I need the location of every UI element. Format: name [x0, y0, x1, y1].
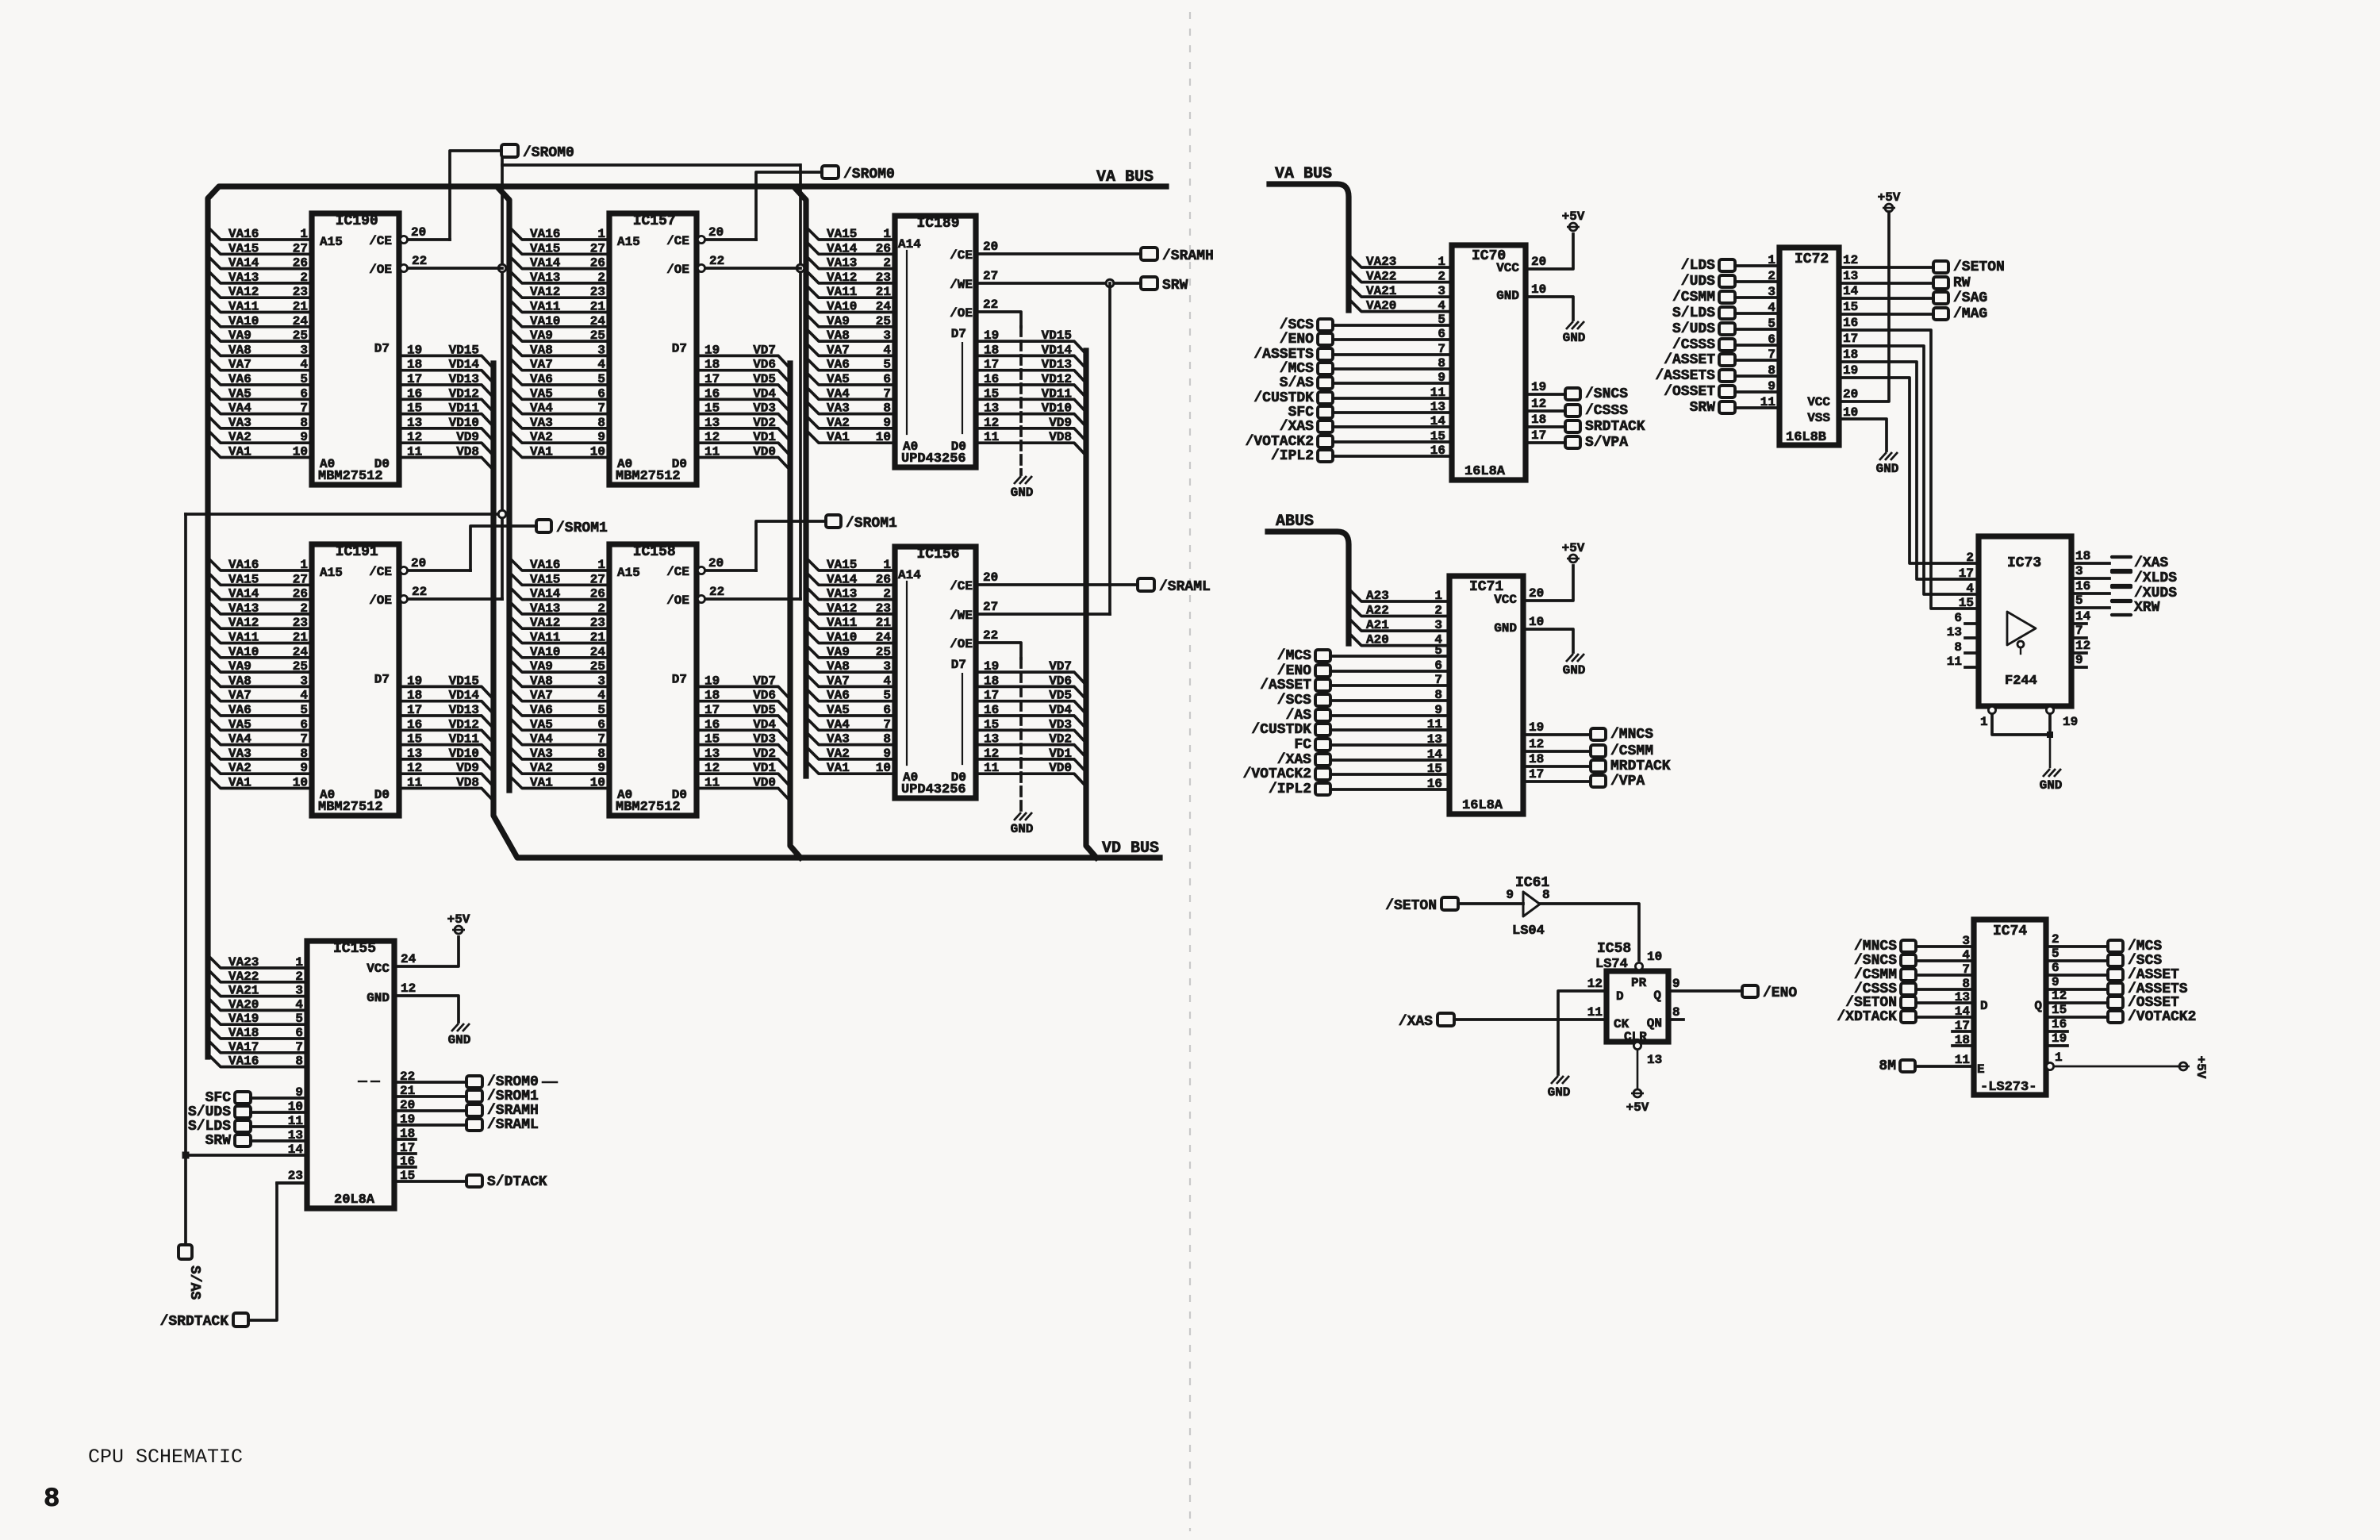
- ground IC156 /OE: [1014, 812, 1021, 820]
- wire IC157 pin 19 to VD7: [697, 355, 790, 368]
- svg-text:13: 13: [1427, 732, 1442, 747]
- connector /ASSET: [1719, 354, 1735, 366]
- pin 13 bubble IC58 CLR: [1633, 1042, 1641, 1049]
- svg-text:VA2: VA2: [228, 761, 251, 775]
- svg-text:VA6: VA6: [530, 703, 553, 717]
- wire IC189 pin 17 to VD13: [976, 371, 1086, 383]
- wire SFC to IC70 pin 13: [1333, 411, 1452, 414]
- svg-text:10: 10: [876, 761, 891, 775]
- svg-text:5: 5: [1434, 643, 1442, 658]
- svg-text:10: 10: [1529, 615, 1544, 629]
- svg-text:A15: A15: [617, 566, 640, 580]
- wire VA3 to IC189 pin 8: [806, 401, 895, 414]
- wire VA8 to IC189 pin 3: [806, 328, 895, 341]
- svg-text:6: 6: [300, 386, 308, 401]
- wire IC190 pin 19 to VD15: [399, 355, 493, 368]
- svg-text:8: 8: [300, 747, 308, 761]
- svg-text:9: 9: [2075, 653, 2083, 667]
- svg-text:2: 2: [295, 970, 303, 984]
- wire /SCS to IC71 pin 8: [1330, 699, 1449, 702]
- wire IC74 pin 5 to /SCS: [2046, 959, 2108, 962]
- svg-text:24: 24: [590, 645, 606, 659]
- wire VA9 to IC190 pin 25: [208, 328, 312, 341]
- svg-text:S/LDS: S/LDS: [188, 1119, 231, 1135]
- ground IC70 pin 10: [1566, 321, 1573, 329]
- wire VA11 to IC190 pin 21: [208, 300, 312, 313]
- svg-text:21: 21: [293, 300, 308, 314]
- connector /OSSET: [1719, 386, 1735, 397]
- svg-text:14: 14: [1427, 747, 1443, 762]
- svg-text:26: 26: [293, 256, 308, 271]
- svg-text:22: 22: [709, 585, 724, 599]
- wire IC189 pin 19 to VD15: [976, 341, 1086, 354]
- stub IC73 pin 8: [1965, 651, 1979, 655]
- wire /IPL2 to IC71 pin 16: [1330, 788, 1449, 791]
- svg-text:12: 12: [704, 761, 720, 775]
- svg-text:VA5: VA5: [827, 372, 850, 386]
- svg-text:7: 7: [597, 401, 605, 416]
- connector /MNCS: [1591, 728, 1606, 740]
- svg-text:VA5: VA5: [827, 703, 850, 717]
- wire IC72 pin 16 to IC73: [1839, 330, 1979, 609]
- svg-text:VA10: VA10: [228, 314, 259, 328]
- svg-text:13: 13: [1947, 625, 1962, 639]
- svg-text:10: 10: [293, 445, 308, 459]
- svg-text:20: 20: [708, 225, 724, 240]
- wire IC156 pin 19 to VD7: [976, 672, 1086, 685]
- svg-text:GND: GND: [1011, 486, 1034, 500]
- svg-text:SRW: SRW: [1162, 278, 1188, 294]
- wire /SETON to IC61: [1458, 902, 1523, 905]
- svg-text:CPU SCHEMATIC: CPU SCHEMATIC: [88, 1446, 243, 1469]
- svg-text:8: 8: [597, 416, 605, 430]
- svg-text:17: 17: [1843, 332, 1858, 346]
- svg-text:VD2: VD2: [753, 747, 776, 761]
- IC IC189 (UPD43256): [895, 216, 976, 467]
- svg-text:10: 10: [293, 776, 308, 790]
- svg-text:/MAG: /MAG: [1953, 306, 1987, 322]
- wire VA12 to IC191 pin 23: [208, 616, 312, 628]
- svg-text:4: 4: [1966, 582, 1974, 596]
- svg-text:GND: GND: [1563, 331, 1586, 345]
- svg-text:VA14: VA14: [530, 256, 561, 271]
- connector /SRAML: [466, 1119, 482, 1131]
- svg-text:1: 1: [883, 558, 891, 572]
- connector /CSMM: [1901, 969, 1916, 981]
- svg-text:5: 5: [1438, 313, 1445, 327]
- svg-text:D0: D0: [374, 457, 390, 471]
- svg-text:VA8: VA8: [530, 343, 553, 357]
- wire A20 to IC71 pin 4: [1349, 633, 1449, 646]
- svg-text:GND: GND: [367, 991, 390, 1005]
- svg-text:+5V: +5V: [1878, 190, 1901, 205]
- svg-text:/SROM1: /SROM1: [846, 516, 897, 532]
- connector /CSSS: [1901, 983, 1916, 995]
- svg-text:20: 20: [983, 240, 998, 254]
- svg-text:14: 14: [2075, 609, 2091, 624]
- svg-text:VA14: VA14: [530, 587, 561, 601]
- svg-text:22: 22: [412, 254, 427, 268]
- wire IC190 pin 16 to VD12: [399, 399, 493, 412]
- wire /SROM1 to IC158 pin 20: [756, 521, 826, 570]
- ground IC73 enable: [2043, 769, 2050, 777]
- svg-text:/OSSET: /OSSET: [1664, 384, 1715, 400]
- svg-text:VA2: VA2: [530, 430, 553, 444]
- wire /CSSS to IC72 pin 6: [1735, 344, 1779, 347]
- svg-text:18: 18: [1531, 413, 1546, 427]
- wire VA4 to IC158 pin 7: [509, 732, 609, 745]
- wire VA8 to IC156 pin 3: [806, 659, 895, 672]
- svg-text:8: 8: [1542, 888, 1550, 902]
- svg-text:VD13: VD13: [1042, 358, 1072, 372]
- svg-text:25: 25: [590, 328, 605, 343]
- svg-text:IC58: IC58: [1597, 941, 1631, 957]
- wire IC158 pin 13 to VD2: [697, 759, 790, 772]
- wire VA6 to IC158 pin 5: [509, 703, 609, 716]
- svg-text:VA8: VA8: [827, 659, 850, 674]
- svg-text:12: 12: [984, 747, 999, 761]
- svg-text:27: 27: [983, 269, 998, 283]
- svg-text:VA8: VA8: [827, 328, 850, 343]
- svg-text:A0: A0: [903, 770, 918, 785]
- svg-text:9: 9: [2052, 975, 2059, 989]
- svg-text:5: 5: [883, 358, 891, 372]
- svg-text:24: 24: [590, 314, 606, 328]
- inverter IC61: [1523, 892, 1540, 916]
- wire /ASSETS to IC72 pin 8: [1735, 374, 1779, 378]
- svg-text:16: 16: [704, 386, 720, 401]
- svg-text:VA7: VA7: [827, 343, 850, 357]
- wire VA6 to IC189 pin 5: [806, 358, 895, 371]
- IC IC191 (MBM27512): [312, 544, 399, 816]
- wire VA5 to IC191 pin 6: [208, 717, 312, 730]
- svg-text:19: 19: [1843, 363, 1858, 378]
- svg-text:/ASSETS: /ASSETS: [1655, 368, 1715, 384]
- svg-text:27: 27: [983, 600, 998, 614]
- connector /VOTACK2: [1315, 768, 1330, 780]
- svg-text:15: 15: [1430, 429, 1445, 444]
- wire IC74 pin 1 to +5V: [2054, 1066, 2177, 1068]
- connector /SETON (IC61 input): [1441, 897, 1458, 910]
- svg-text:VA2: VA2: [827, 747, 850, 761]
- svg-text:A22: A22: [1366, 604, 1389, 618]
- svg-text:VA3: VA3: [530, 416, 553, 430]
- svg-text:VD9: VD9: [1049, 416, 1072, 430]
- wire VA1 to IC157 pin 10: [509, 445, 609, 458]
- connector /ENO: [1742, 985, 1758, 997]
- svg-text:18: 18: [1955, 1033, 1970, 1047]
- svg-text:7: 7: [883, 386, 891, 401]
- connector /XLDS: [2112, 570, 2131, 574]
- wire /XAS to IC70 pin 14: [1333, 425, 1452, 428]
- svg-text:LS04: LS04: [1512, 924, 1545, 939]
- svg-text:VD0: VD0: [753, 445, 776, 459]
- svg-text:VA22: VA22: [228, 970, 259, 984]
- svg-text:7: 7: [883, 717, 891, 732]
- svg-text:8: 8: [1438, 356, 1445, 371]
- svg-text:1: 1: [1434, 589, 1442, 603]
- svg-text:VD6: VD6: [1049, 674, 1072, 688]
- wire IC191 pin 17 to VD13: [399, 716, 493, 728]
- svg-text:VA1: VA1: [530, 776, 553, 790]
- svg-text:21: 21: [590, 631, 605, 645]
- svg-text:S/AS: S/AS: [186, 1265, 202, 1300]
- wire IC72 pin 12 to /SETON: [1839, 266, 1933, 269]
- connector /SCS: [1318, 319, 1333, 331]
- svg-text:VD11: VD11: [1042, 386, 1072, 401]
- wire IC155 pin 22 to /SROM0: [394, 1081, 466, 1084]
- wire IC157 pin 15 to VD3: [697, 414, 790, 427]
- svg-text:27: 27: [293, 241, 308, 255]
- wire IC157 pin 13 to VD2: [697, 428, 790, 441]
- svg-text:VA6: VA6: [827, 358, 850, 372]
- svg-text:/SRAML: /SRAML: [1159, 579, 1211, 595]
- svg-text:17: 17: [400, 1141, 415, 1155]
- svg-text:26: 26: [590, 256, 605, 271]
- stub IC74 pin 18: [1952, 1044, 1974, 1047]
- svg-text:/SRAMH: /SRAMH: [487, 1103, 539, 1119]
- wire /MCS to IC70 pin 8: [1333, 367, 1452, 371]
- wire VA2 to IC190 pin 9: [208, 430, 312, 443]
- svg-text:VA7: VA7: [530, 689, 553, 703]
- svg-text:16: 16: [400, 1154, 415, 1169]
- svg-text:A0: A0: [320, 788, 335, 802]
- svg-text:10: 10: [590, 445, 605, 459]
- svg-text:6: 6: [2052, 961, 2059, 975]
- svg-text:VD7: VD7: [753, 674, 776, 688]
- svg-text:5: 5: [597, 372, 605, 386]
- svg-text:VA2: VA2: [228, 430, 251, 444]
- svg-text:2: 2: [1438, 270, 1445, 284]
- wire IC74 pin 9 to /ASSETS: [2046, 988, 2108, 991]
- svg-text:11: 11: [288, 1114, 303, 1128]
- svg-text:GND: GND: [1011, 822, 1034, 836]
- connector /SNCS: [1901, 954, 1916, 966]
- wire IC72 VCC pin 20 to +5V: [1839, 212, 1889, 401]
- wire VA1 to IC156 pin 10: [806, 761, 895, 774]
- svg-text:7: 7: [300, 401, 308, 416]
- svg-text:10: 10: [590, 776, 605, 790]
- svg-text:1: 1: [597, 227, 605, 241]
- wire IC156 pin 12 to VD1: [976, 759, 1086, 772]
- svg-text:/OE: /OE: [950, 306, 973, 321]
- wire /AS to IC71 pin 9: [1330, 714, 1449, 717]
- wire IC191 /OE pin 22: [408, 597, 502, 601]
- svg-text:VA22: VA22: [1366, 270, 1396, 284]
- stub IC73 pin 11: [1965, 666, 1979, 669]
- svg-text:/MCS: /MCS: [1280, 361, 1314, 377]
- svg-text:VSS: VSS: [1807, 411, 1830, 425]
- wire IC191 pin 15 to VD11: [399, 745, 493, 758]
- svg-text:3: 3: [295, 984, 303, 998]
- svg-text:8: 8: [1768, 363, 1775, 378]
- wire IC158 pin 11 to VD0: [697, 789, 790, 801]
- svg-text:19: 19: [704, 343, 720, 357]
- svg-text:VA1: VA1: [530, 445, 553, 459]
- svg-text:S/VPA: S/VPA: [1585, 435, 1628, 451]
- connector /ASSET: [1315, 679, 1330, 691]
- wire IC155 VCC pin 24 to +5V: [394, 937, 459, 966]
- stub IC74 pin 19: [2046, 1044, 2067, 1047]
- svg-text:21: 21: [293, 631, 308, 645]
- svg-text:24: 24: [876, 300, 892, 314]
- svg-text:VA23: VA23: [1366, 255, 1396, 269]
- IC IC73 (F244): [1979, 536, 2071, 706]
- connector /CSMM: [1591, 745, 1606, 757]
- wire IC71 pin 19 to /MNCS: [1523, 733, 1591, 736]
- svg-text:/CE: /CE: [666, 565, 689, 579]
- wire /XDTACK to IC74 pin 14: [1916, 1016, 1974, 1019]
- svg-text:15: 15: [704, 401, 720, 416]
- svg-text:5: 5: [295, 1012, 303, 1026]
- svg-text:15: 15: [407, 732, 422, 747]
- svg-text:18: 18: [2075, 549, 2090, 563]
- svg-text:VA21: VA21: [1366, 284, 1396, 298]
- connector /XAS (IC58 clock): [1438, 1013, 1454, 1026]
- wire VA16 to IC155 pin 8: [208, 1054, 307, 1067]
- wire VA2 to IC191 pin 9: [208, 761, 312, 774]
- wire /CSSS to IC74 pin 8: [1916, 988, 1974, 991]
- wire IC73 pin 3 to /XLDS: [2071, 577, 2109, 580]
- svg-text:VD10: VD10: [449, 416, 479, 430]
- wire VA21 to IC155 pin 3: [208, 984, 307, 997]
- svg-text:GND: GND: [1496, 289, 1519, 303]
- IC IC74 (LS273): [1974, 920, 2046, 1095]
- wire VA1 to IC191 pin 10: [208, 776, 312, 789]
- svg-text:18: 18: [984, 343, 999, 357]
- svg-text:VD8: VD8: [456, 445, 479, 459]
- bus rail column 2 (VA): [499, 189, 509, 790]
- svg-text:GND: GND: [448, 1033, 471, 1047]
- svg-text:23: 23: [590, 616, 605, 630]
- svg-text:IC158: IC158: [633, 544, 676, 560]
- svg-text:1: 1: [1768, 253, 1775, 267]
- wire A23 to IC71 pin 1: [1349, 589, 1449, 601]
- wire ROM OE net to S-AS rail: [186, 513, 502, 516]
- svg-text:19: 19: [2063, 715, 2078, 729]
- svg-text:VA9: VA9: [530, 328, 553, 343]
- svg-text:23: 23: [288, 1169, 303, 1183]
- svg-text:/CSMM: /CSMM: [1854, 967, 1897, 983]
- svg-text:18: 18: [400, 1127, 415, 1141]
- wire VA1 to IC189 pin 10: [806, 430, 895, 443]
- svg-text:S/UDS: S/UDS: [1672, 321, 1715, 337]
- connector S/AS: [178, 1245, 192, 1259]
- svg-text:VD6: VD6: [753, 358, 776, 372]
- svg-text:20L8A: 20L8A: [334, 1192, 375, 1208]
- svg-text:14: 14: [1843, 284, 1859, 298]
- svg-text:VA3: VA3: [228, 747, 251, 761]
- svg-text:19: 19: [2052, 1031, 2067, 1046]
- wire IC191 pin 19 to VD15: [399, 686, 493, 699]
- connector /OSSET: [2108, 997, 2123, 1008]
- svg-text:VD15: VD15: [1042, 328, 1072, 343]
- wire VA4 to IC190 pin 7: [208, 401, 312, 414]
- wire VA10 to IC191 pin 24: [208, 645, 312, 658]
- wire VA6 to IC156 pin 5: [806, 689, 895, 701]
- svg-text:8: 8: [883, 401, 891, 416]
- wire IC156 /CE pin 20 to /SRAML: [976, 583, 1138, 586]
- svg-text:/CSSS: /CSSS: [1585, 403, 1628, 419]
- svg-text:VD12: VD12: [449, 717, 479, 732]
- wire VA10 to IC158 pin 24: [509, 645, 609, 658]
- svg-text:GND: GND: [1563, 663, 1586, 678]
- wire IC155 pin 20 to /SRAMH: [394, 1109, 466, 1112]
- wire IC71 GND pin 10: [1523, 629, 1573, 652]
- svg-text:VA20: VA20: [1366, 299, 1396, 313]
- svg-text:24: 24: [293, 645, 309, 659]
- svg-text:12: 12: [401, 981, 416, 996]
- svg-text:D7: D7: [672, 341, 687, 355]
- svg-text:27: 27: [293, 572, 308, 586]
- IC IC157 (MBM27512): [609, 213, 697, 485]
- page fold line: [1189, 12, 1191, 1531]
- svg-text:/SAG: /SAG: [1953, 290, 1987, 306]
- svg-text:VA10: VA10: [530, 314, 560, 328]
- wire VA7 to IC157 pin 4: [509, 358, 609, 371]
- svg-text:5: 5: [300, 703, 308, 717]
- svg-text:VD3: VD3: [1049, 717, 1072, 732]
- svg-text:/CE: /CE: [369, 234, 392, 248]
- wire /SROM0 to IC190 pin 20: [450, 151, 501, 240]
- svg-text:23: 23: [876, 271, 891, 285]
- svg-text:4: 4: [883, 343, 891, 357]
- wire IC157 /CE pin 20: [705, 238, 756, 241]
- connector S/AS: [1318, 377, 1333, 389]
- svg-text:D7: D7: [374, 341, 390, 355]
- svg-text:VA12: VA12: [827, 271, 857, 285]
- svg-text:SRDTACK: SRDTACK: [1585, 419, 1645, 435]
- svg-text:VA12: VA12: [530, 285, 560, 299]
- wire /SCS to IC70 pin 5: [1333, 324, 1452, 327]
- wire IC189 pin 18 to VD14: [976, 355, 1086, 368]
- svg-text:VA BUS: VA BUS: [1096, 168, 1154, 186]
- svg-text:VA7: VA7: [530, 358, 553, 372]
- svg-text:9: 9: [300, 430, 308, 444]
- svg-text:16: 16: [984, 703, 999, 717]
- svg-text:VCC: VCC: [1496, 261, 1519, 275]
- svg-text:11: 11: [1430, 386, 1445, 400]
- wire IC71 pin 12 to /CSMM: [1523, 750, 1591, 753]
- svg-text:VD4: VD4: [753, 386, 776, 401]
- svg-text:12: 12: [704, 430, 720, 444]
- wire VA9 to IC158 pin 25: [509, 659, 609, 672]
- svg-text:VD15: VD15: [449, 674, 479, 688]
- wire /CUSTDK to IC70 pin 11: [1333, 397, 1452, 400]
- svg-text:19: 19: [984, 659, 999, 674]
- svg-text:/VPA: /VPA: [1610, 774, 1645, 789]
- svg-text:6: 6: [1434, 659, 1442, 673]
- svg-text:5: 5: [1768, 317, 1775, 331]
- wire IC58 D pin 12 to GND: [1558, 991, 1606, 1074]
- connector SFC: [235, 1092, 251, 1104]
- wire /SETON to IC74 pin 13: [1916, 1001, 1974, 1004]
- wire VA13 to IC157 pin 2: [509, 271, 609, 283]
- svg-text:VA16: VA16: [530, 558, 560, 572]
- svg-text:VA7: VA7: [827, 674, 850, 688]
- svg-text:D0: D0: [951, 440, 966, 454]
- wire ROM OE net horizontal (top): [502, 163, 800, 167]
- svg-text:VA15: VA15: [228, 572, 259, 586]
- svg-text:2: 2: [300, 601, 308, 616]
- svg-text:1: 1: [295, 955, 303, 970]
- svg-text:VA1: VA1: [228, 445, 251, 459]
- svg-text:20: 20: [1843, 387, 1858, 401]
- svg-text:25: 25: [293, 328, 308, 343]
- connector /SROM0 (second): [822, 166, 839, 179]
- wire IC74 pin 2 to /MCS: [2046, 945, 2108, 948]
- svg-text:VD12: VD12: [1042, 372, 1072, 386]
